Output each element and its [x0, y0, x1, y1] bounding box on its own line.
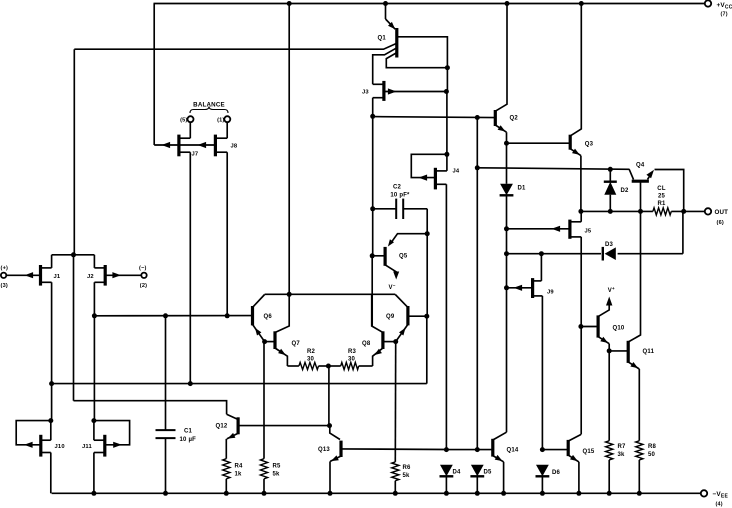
- svg-text:Q14: Q14: [507, 448, 519, 454]
- wire cascode feed vertical: [73, 49, 75, 255]
- node Q3 emitter junction: [578, 209, 583, 214]
- wire Q6 base line: [94, 315, 252, 317]
- svg-text:J11: J11: [82, 444, 93, 450]
- node R2 R3 tap junction: [326, 364, 331, 369]
- jfet J9: [531, 278, 534, 298]
- node J7 source junction: [188, 381, 193, 386]
- wire +Vcc top rail: [154, 3, 706, 5]
- svg-text:(5): (5): [180, 118, 187, 124]
- capacitor C1: [165, 316, 167, 430]
- node rail R6: [393, 491, 398, 496]
- node Q5 base junction: [370, 253, 375, 258]
- wire Q1 collector 2 to J3: [373, 48, 397, 85]
- node D5 top junction: [475, 447, 480, 452]
- svg-text:(1): (1): [217, 118, 224, 124]
- diode D2: [608, 167, 613, 172]
- node J1 source balance junction: [49, 381, 54, 386]
- node D3 line junction: [504, 251, 509, 256]
- resistor R7: [606, 441, 613, 460]
- transistor Q15: [542, 449, 568, 451]
- diode D6: [536, 465, 549, 477]
- svg-text:Q1: Q1: [378, 36, 387, 42]
- transistor Q1: [385, 4, 387, 20]
- svg-text:10 pF*: 10 pF*: [390, 193, 410, 199]
- node rail R4: [224, 491, 229, 496]
- node J11 drain junction: [91, 418, 96, 423]
- svg-text:Q7: Q7: [292, 341, 301, 347]
- wire J9 gate: [507, 287, 533, 289]
- svg-text:3k: 3k: [618, 452, 626, 458]
- wire J11 gate loop: [94, 421, 130, 445]
- svg-text:R2: R2: [307, 349, 316, 355]
- svg-text:25: 25: [658, 194, 666, 200]
- node rail C1: [163, 491, 168, 496]
- node D6 top junction: [540, 447, 545, 452]
- node J4 gate-drain junction: [444, 152, 449, 157]
- svg-text:C2: C2: [393, 185, 402, 191]
- svg-text:(3): (3): [1, 283, 8, 289]
- wire Q2 base branch down: [476, 118, 478, 450]
- node rail R7: [607, 491, 612, 496]
- arrow J8 gate: [198, 142, 207, 148]
- svg-text:OUT: OUT: [715, 209, 729, 216]
- svg-text:(2): (2): [140, 283, 147, 289]
- resistor R4: [223, 459, 230, 479]
- wire J5 gate: [507, 228, 570, 230]
- node drain tie junction: [71, 252, 76, 257]
- wire J2 source down: [93, 282, 95, 420]
- jfet J7: [189, 122, 191, 138]
- svg-text:D6: D6: [552, 470, 561, 476]
- svg-text:5k: 5k: [403, 473, 411, 479]
- transistor Q5: [384, 247, 387, 266]
- resistor R1: [653, 208, 671, 215]
- arrow J9 gate: [514, 285, 523, 291]
- svg-text:5k: 5k: [273, 471, 281, 477]
- svg-text:Q6: Q6: [264, 314, 273, 320]
- node Q10 base junction: [578, 324, 583, 329]
- wire J3 source to Q2 base: [373, 117, 496, 118]
- wire -Vee bottom rail: [52, 492, 701, 494]
- node rail D4: [444, 491, 449, 496]
- svg-text:Q2: Q2: [510, 116, 519, 122]
- node J5 gate junction: [504, 226, 509, 231]
- node centre rail junction: [287, 1, 292, 6]
- node C2 left junction: [370, 206, 375, 211]
- node D3 J9 drain junction: [539, 251, 544, 256]
- wire tap to Q12 base: [328, 366, 330, 426]
- node Q6 emitter junction: [262, 339, 267, 344]
- node rail Q15 emitter: [576, 491, 581, 496]
- node J3 source junction: [370, 114, 375, 119]
- node rail R5: [262, 491, 267, 496]
- wire output line: [581, 210, 653, 212]
- transistor Q7: [273, 331, 276, 349]
- wire J3 gate to Q1 base net: [384, 91, 447, 93]
- node Q5 emitter junction: [425, 231, 430, 236]
- resistor R6: [392, 462, 399, 481]
- svg-text:(+): (+): [1, 266, 9, 272]
- node Q2 emitter to Q3 base junction: [504, 141, 509, 146]
- diode D3 line: [507, 253, 602, 255]
- wire J10 gate loop: [16, 421, 51, 445]
- jfet J2: [104, 265, 107, 286]
- svg-text:Q12: Q12: [216, 424, 228, 430]
- transistor Q12: [237, 417, 240, 434]
- svg-text:Q15: Q15: [583, 449, 595, 455]
- wire J1 source down: [51, 282, 53, 420]
- terminal -Vee pin 4: [701, 490, 707, 496]
- node Q2 collector junction: [505, 1, 510, 6]
- wire balance net horizontal: [52, 383, 427, 385]
- wire J8 source down to Q6 base net: [226, 152, 228, 316]
- node Q1 emitter junction: [383, 1, 388, 6]
- node C1 top junction: [163, 313, 168, 318]
- svg-text:D2: D2: [621, 188, 630, 194]
- svg-text:J10: J10: [55, 444, 65, 450]
- jfet J3: [382, 81, 385, 101]
- node Q12 base junction: [327, 423, 332, 428]
- diode D5: [471, 465, 484, 477]
- jfet J10: [39, 435, 42, 457]
- svg-text:Q4: Q4: [636, 163, 645, 169]
- svg-text:D1: D1: [518, 186, 527, 192]
- svg-text:R6: R6: [403, 465, 412, 471]
- svg-text:Q11: Q11: [643, 349, 655, 355]
- transistor Q11: [627, 341, 630, 363]
- diode D4: [440, 465, 453, 477]
- node J10 drain junction: [48, 418, 53, 423]
- svg-text:10 µF: 10 µF: [180, 437, 197, 443]
- svg-text:J7: J7: [192, 152, 199, 158]
- wire J1 J2 drain tie: [52, 254, 95, 256]
- svg-text:C1: C1: [184, 429, 193, 435]
- node J3 gate junction: [444, 89, 449, 94]
- svg-text:J8: J8: [231, 144, 238, 150]
- svg-text:R7: R7: [618, 444, 627, 450]
- wire Q10 emitter to R7: [608, 351, 610, 441]
- arrow J4 gate: [419, 175, 428, 181]
- svg-text:R4: R4: [235, 464, 244, 470]
- node rail J11 source: [91, 491, 96, 496]
- svg-text:R1: R1: [657, 201, 666, 207]
- resistor R3: [328, 365, 340, 367]
- svg-text:Q3: Q3: [585, 142, 594, 148]
- resistor R5: [263, 342, 265, 459]
- wire J4 source down to D4: [435, 183, 446, 185]
- wire Q2 emitter to Q3 base: [507, 142, 571, 144]
- svg-text:D4: D4: [453, 470, 462, 476]
- svg-text:D5: D5: [484, 470, 493, 476]
- node rail R8: [637, 491, 642, 496]
- svg-text:J4: J4: [453, 169, 460, 175]
- node Q9 base junction: [424, 314, 429, 319]
- svg-text:1k: 1k: [235, 471, 243, 477]
- jfet J8: [214, 135, 217, 157]
- svg-text:J2: J2: [87, 274, 94, 280]
- terminal OUT pin 6: [705, 208, 711, 214]
- terminal +Vcc pin 7: [705, 0, 711, 6]
- node Q1 base-collector junction: [445, 65, 450, 70]
- svg-text:J1: J1: [54, 274, 61, 280]
- wire C2 right down Q5 emitter: [426, 209, 428, 316]
- svg-text:R8: R8: [648, 444, 657, 450]
- resistor R2: [287, 365, 299, 367]
- jfet J11: [103, 435, 106, 457]
- svg-text:R5: R5: [273, 464, 282, 470]
- wire centre feed from rail: [288, 4, 290, 295]
- arrow J3 gate: [388, 88, 397, 94]
- wire Q1 collector 3 loop: [386, 53, 447, 68]
- jfet J1: [6, 274, 40, 276]
- svg-text:(7): (7): [721, 12, 728, 18]
- node Q2 base junction: [475, 115, 480, 120]
- transistor Q4: [632, 180, 649, 183]
- wire balance net to Q9 base: [426, 316, 428, 383]
- wire Q9 emitter to R6: [394, 342, 396, 462]
- diode D1: [506, 143, 508, 184]
- svg-text:R3: R3: [348, 349, 357, 355]
- node collector line junction: [287, 292, 292, 297]
- svg-text:J5: J5: [585, 229, 592, 235]
- svg-text:D3: D3: [605, 242, 614, 248]
- transistor Q2: [494, 110, 497, 126]
- transistor Q14: [491, 439, 494, 457]
- wire intermediate line to D2: [477, 168, 629, 170]
- wire J4 gate loop: [411, 154, 447, 177]
- node rail D5: [475, 491, 480, 496]
- transistor Q13: [339, 441, 342, 457]
- svg-text:Q5: Q5: [399, 254, 408, 260]
- jfet J5: [568, 220, 571, 239]
- node D4 top junction: [444, 447, 449, 452]
- node intermediate branch junction: [475, 165, 480, 170]
- node J2 source Q6 base junction: [92, 313, 97, 318]
- node J8 source junction: [225, 313, 230, 318]
- transistor Q3: [569, 135, 572, 150]
- svg-text:Q13: Q13: [318, 447, 330, 453]
- svg-text:(4): (4): [716, 502, 723, 508]
- svg-text:Q9: Q9: [386, 314, 395, 320]
- wire J7 J8 gate line: [154, 144, 215, 146]
- node Q4 base junction: [638, 209, 643, 214]
- arrow J11 gate: [113, 442, 122, 448]
- svg-text:50: 50: [648, 452, 656, 458]
- svg-text:Q8: Q8: [362, 341, 371, 347]
- resistor R8: [636, 441, 643, 460]
- arrow J7 gate: [162, 142, 171, 148]
- svg-text:J3: J3: [362, 90, 369, 96]
- wire Q1 collector 1 to input cascode: [74, 43, 397, 49]
- svg-text:Q10: Q10: [613, 326, 625, 332]
- svg-text:30: 30: [307, 357, 315, 363]
- node Q3 collector junction: [579, 1, 584, 6]
- node Q10 emitter Q11 base junction: [607, 348, 612, 353]
- arrow J10 gate: [24, 442, 33, 448]
- transistor Q9: [406, 306, 409, 325]
- svg-text:30: 30: [348, 357, 356, 363]
- brace balance: [190, 107, 228, 114]
- wire J3 source net down to Q8 collector: [372, 116, 374, 256]
- node J9 gate junction: [504, 285, 509, 290]
- wire bias line to Q14: [446, 449, 492, 451]
- jfet J4: [434, 168, 437, 190]
- wire Q1 base net down: [446, 68, 448, 92]
- transistor Q10: [596, 315, 599, 337]
- wire Q1 base loop: [397, 37, 448, 68]
- node R1 right junction: [671, 210, 705, 212]
- node rail D6: [540, 491, 545, 496]
- wire J7 source down to balance net: [189, 152, 191, 383]
- node Q8 base junction: [393, 339, 398, 344]
- svg-text:(6): (6): [717, 220, 724, 226]
- svg-text:J9: J9: [547, 290, 554, 296]
- transistor Q6: [251, 306, 254, 325]
- transistor Q8: [381, 331, 384, 349]
- svg-text:(−): (−): [139, 266, 147, 272]
- wire collector feed to Q12: [74, 401, 227, 415]
- node rail Q13 emitter: [328, 491, 333, 496]
- wire Q6 Q9 collector line: [265, 293, 396, 295]
- svg-text:CL: CL: [657, 186, 666, 192]
- node rail Q14 emitter: [501, 491, 506, 496]
- arrow J5 gate: [552, 226, 561, 232]
- node rail-J7J8gate corner: [153, 4, 155, 146]
